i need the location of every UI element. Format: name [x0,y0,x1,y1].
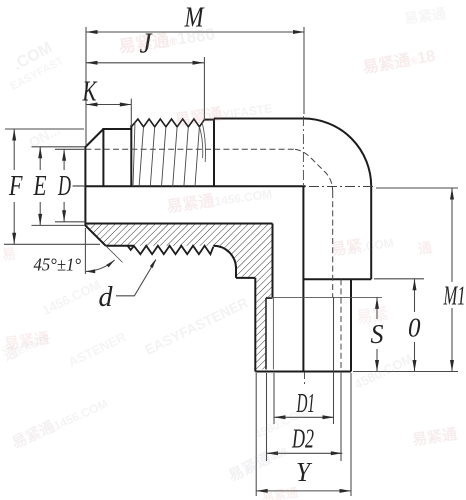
wire collar face vertical [213,119,215,187]
wire cone junction vertical [102,129,104,186]
svg-text:E: E [33,170,47,202]
dimension F [4,129,100,244]
port thread minor thin line left [272,298,274,370]
thread runout curves [199,127,202,158]
wire bore bottom edge [85,223,272,225]
node tip-face [84,147,86,226]
wire thread relief step [266,297,273,299]
wire elbow outer arc [303,119,371,187]
S reference line [267,296,383,298]
svg-text:D: D [57,170,71,202]
svg-text:0: 0 [408,313,421,343]
watermark texts [117,19,216,57]
svg-text:D2: D2 [291,424,314,454]
wire crest shoulder line [204,119,214,121]
wire left step [236,277,255,279]
thread d teeth (male, sectioned) [128,246,214,255]
centerline vertical dash-dot upper [302,116,304,186]
wire body top edge [214,118,304,120]
dimension D2 [267,372,343,462]
wire port inner wall left [272,224,274,298]
wire upper flare cone [85,129,103,147]
dimension J [86,57,204,119]
wire elbow right face [370,186,372,279]
centerline horizontal dash-dot [309,186,376,188]
dimension E [32,147,86,226]
svg-text:K: K [82,76,98,108]
wire: main outline of body [85,119,371,372]
wire shoulder right [303,278,371,280]
dimension K [86,99,131,126]
section hatch region [85,224,272,370]
dimension S [375,297,379,371]
wire lower flare cone (section) [85,226,105,246]
wire port thread major left [265,298,267,370]
dimension M [86,27,305,146]
svg-text:F: F [8,170,22,202]
wire port outer wall left [254,278,256,372]
dimension 45deg angle [85,228,122,274]
wire port outer wall right [350,279,352,371]
label d leader [116,259,156,296]
dimension D [55,149,85,222]
thread crest zigzag top [131,119,204,127]
wire stud root line left part [106,245,134,247]
wire nose cylinder top [102,128,131,130]
wire thread start vertical [130,125,132,186]
wire fillet vertical [235,266,237,278]
dimension Y [256,373,351,496]
svg-text:45°±1°: 45°±1° [34,255,82,275]
wire half-section boundary horizontal [85,185,305,187]
hidden thread major right [340,279,342,371]
svg-text:M1: M1 [443,281,466,311]
hidden bore dashed line [85,149,341,371]
dimension M1 [353,188,458,372]
wire port bottom face [255,371,351,373]
centerline vertical dash-dot below face [304,372,306,385]
thread helix lines [133,122,199,186]
wire port axis boundary [302,186,304,371]
dimension O [374,279,424,372]
wire fillet arc [213,246,236,268]
svg-text:Y: Y [296,457,313,487]
dimension D1 [274,297,334,424]
